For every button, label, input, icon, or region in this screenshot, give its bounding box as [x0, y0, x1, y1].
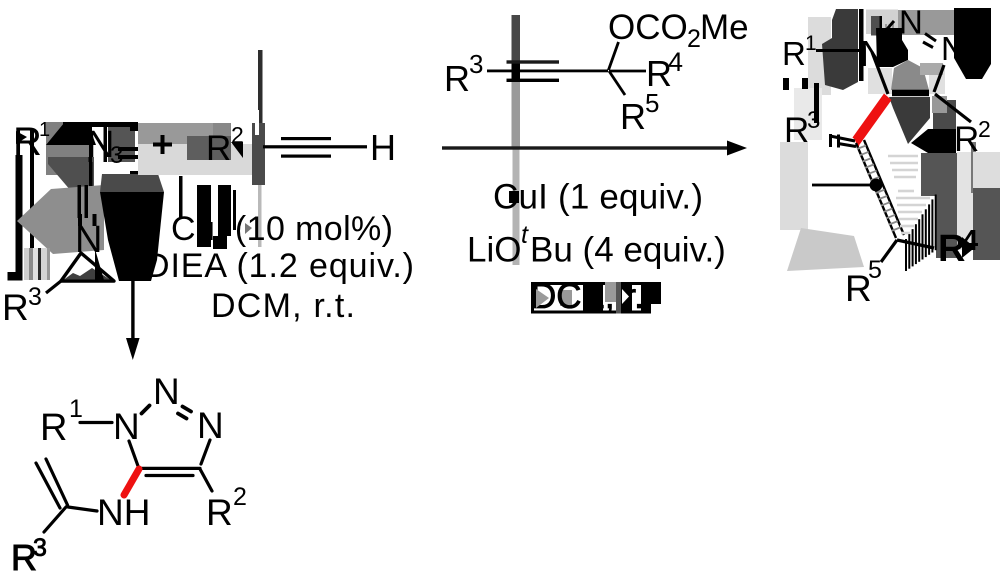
down arrow — [131, 280, 134, 340]
glitch gray fill in C of DCE — [560, 290, 572, 306]
glitch light band behind R3 — [794, 88, 822, 140]
terminal C bond to R5 — [881, 240, 897, 262]
plus sign — [153, 143, 172, 147]
svg-text:R: R — [444, 58, 470, 99]
svg-text:5: 5 — [645, 88, 659, 118]
glitch black blob top-right corner — [954, 8, 991, 79]
black foot bottom-left — [8, 272, 23, 281]
svg-text:3: 3 — [807, 107, 820, 134]
glitch gray band over R1 row — [46, 122, 88, 175]
svg-text:OCO: OCO — [608, 8, 688, 47]
double bond R3=C — [830, 136, 855, 141]
glitch black blocks over DCE — [531, 282, 534, 314]
double bond C5=C4 — [139, 467, 200, 470]
svg-text:2: 2 — [233, 483, 247, 511]
glitch wedge right of R2 — [231, 142, 243, 158]
bond C4-R2 — [200, 469, 212, 491]
glitch gray bar mid — [512, 82, 521, 148]
glitch light slit — [957, 152, 973, 250]
glitch striped wedge — [906, 195, 936, 272]
glitch gray pentagon (ring interior) — [891, 60, 929, 90]
bond N3-C4 — [201, 440, 210, 464]
small black wedge right of triangle — [95, 249, 104, 280]
glitch dark band behind N3 subscript — [108, 122, 135, 162]
glitch dark gray right of pentagon — [933, 100, 956, 131]
svg-text:1: 1 — [69, 395, 83, 423]
glitch light flanks of ring — [868, 68, 892, 94]
glitch dark rect behind R2 — [187, 136, 231, 160]
hatch ticks — [857, 146, 901, 231]
gray arrow-like blob — [17, 185, 104, 254]
glitch light band far left — [780, 142, 808, 230]
svg-text:N: N — [153, 371, 180, 412]
svg-text:N: N — [899, 4, 923, 41]
glitch thin line above CuI — [179, 176, 183, 219]
svg-text:R: R — [40, 407, 67, 449]
svg-text:2: 2 — [687, 25, 701, 53]
svg-text:NH: NH — [97, 492, 150, 533]
svg-text:1: 1 — [805, 32, 817, 55]
glitch gray stripe columns above foot — [24, 248, 29, 280]
svg-text:3: 3 — [33, 534, 47, 562]
glitch gray line right of slit — [971, 142, 976, 193]
svg-text:Me: Me — [700, 8, 749, 47]
triple bond bottom line — [507, 79, 560, 82]
double bond N2=N3 marks — [925, 34, 936, 42]
bond R1-N1 — [816, 49, 860, 52]
alkyne main bond to H — [263, 145, 367, 148]
svg-text:H: H — [370, 127, 396, 168]
vinyl C=C double bond — [46, 459, 68, 505]
bond C-OCO2Me — [609, 42, 619, 70]
svg-text:t: t — [521, 221, 529, 249]
glitch black blob right of N1 — [876, 28, 908, 67]
svg-text:N: N — [113, 406, 140, 447]
glitch black bar segment — [512, 62, 521, 82]
bond NH-C(vinyl) — [68, 507, 97, 511]
glitch small black bit — [130, 122, 138, 131]
thick C4=C5 bond bar — [892, 90, 929, 97]
svg-text:4: 4 — [962, 225, 978, 257]
glitch gray bar lower — [513, 148, 520, 265]
glitch dark right block — [973, 188, 1000, 260]
bond N3 down — [89, 162, 93, 186]
glitch gray triangle inside D — [536, 289, 549, 308]
svg-text:4: 4 — [668, 47, 683, 77]
glitch dark funnel below ring — [889, 97, 930, 144]
svg-text:Bu (4 equiv.): Bu (4 equiv.) — [530, 231, 726, 270]
horizontal line to allene dot — [812, 184, 872, 187]
svg-text:5: 5 — [868, 256, 882, 284]
glitch gray wedge in parenthesis — [245, 223, 252, 234]
svg-text:R: R — [954, 120, 979, 159]
glitch black top strip — [63, 122, 135, 127]
svg-text:R: R — [782, 35, 806, 72]
svg-text:R: R — [206, 492, 233, 533]
double bond N2=N3 — [183, 407, 192, 412]
triple bond bottom line — [281, 155, 331, 158]
glitch black wedge left of R2 — [911, 129, 956, 153]
bond R1-N1 — [80, 421, 112, 424]
svg-text:CuI (1 equiv.): CuI (1 equiv.) — [493, 178, 703, 217]
glitch equals marks right of N3 — [118, 147, 141, 151]
svg-text:LiO: LiO — [467, 231, 521, 270]
svg-text:2: 2 — [978, 116, 991, 142]
glitch dark column below wedge — [921, 153, 957, 196]
glitch light band left of ring — [808, 17, 831, 95]
glitch light quad bottom-left — [787, 228, 864, 271]
bond N1-C5 — [129, 441, 138, 466]
triple bond top line — [281, 137, 331, 140]
bond C4-R2 — [935, 94, 971, 122]
C=N double bond lines — [78, 185, 82, 218]
svg-text:1: 1 — [39, 119, 50, 141]
red thick bond C5-allene — [853, 94, 892, 145]
left vertical line — [30, 129, 34, 248]
bond C-R4 — [609, 70, 646, 73]
svg-text:R: R — [784, 111, 809, 150]
bond N1-N2 — [881, 21, 894, 36]
glitch gray band above plus — [138, 123, 213, 144]
triple bond top line — [507, 60, 560, 63]
glitch black bars below R1 — [783, 78, 789, 90]
glitch dark trapezoid under N3 — [48, 157, 94, 191]
alkyne main bond — [487, 70, 608, 73]
glitch tick marks right of R3 — [829, 134, 832, 147]
bond N1-N2 — [142, 406, 150, 414]
svg-text:3: 3 — [469, 49, 483, 79]
cyclopropane triangle — [61, 253, 114, 281]
svg-text:3: 3 — [28, 283, 42, 311]
glitch wedge left of R — [16, 131, 27, 144]
glitch black blob in CuI — [509, 191, 519, 203]
allene center dot — [870, 179, 883, 192]
glitch light rects below plus — [138, 144, 252, 175]
glitch white notch — [908, 41, 923, 59]
glitch borders of DCE block — [532, 282, 661, 285]
svg-text:DCM, r.t.: DCM, r.t. — [211, 287, 355, 325]
glitch thin stripes left of N2 — [885, 24, 887, 36]
glitch dark blob left of N1 — [822, 9, 858, 90]
svg-text:R: R — [620, 96, 646, 137]
glitch light horizontal stripes — [888, 156, 930, 233]
glitch black wedge bond R1-N3 — [46, 123, 96, 145]
reaction arrow — [442, 146, 730, 149]
glitch gray vertical bar top — [512, 15, 521, 62]
dark triangle inside (mountain) — [64, 268, 110, 280]
glitch R leg line — [16, 155, 23, 280]
glitch black bars at N1 — [859, 9, 864, 81]
svg-text:DIEA (1.2 equiv.): DIEA (1.2 equiv.) — [145, 247, 414, 285]
glitch black bars over CuI — [197, 185, 211, 247]
bond to R3 — [46, 281, 61, 293]
red bond C5-NH — [124, 469, 139, 495]
hatched allene bond outer lines — [856, 143, 896, 238]
svg-text:R: R — [2, 287, 29, 328]
terminal C bond to R4 — [897, 240, 934, 248]
svg-text:R: R — [206, 129, 231, 168]
bond N1-C5 — [872, 52, 888, 94]
bond N3-C4 — [934, 65, 944, 92]
svg-text:N: N — [941, 30, 965, 67]
glitch gray patch right of funnel — [932, 96, 947, 113]
glitch gray banner behind N2 — [866, 10, 898, 35]
bond C-R5 — [609, 71, 625, 95]
dark cap above funnel — [100, 174, 164, 192]
bond C-R3 — [44, 507, 66, 532]
black funnel blob — [100, 192, 164, 281]
long vertical glitch line — [258, 50, 263, 163]
